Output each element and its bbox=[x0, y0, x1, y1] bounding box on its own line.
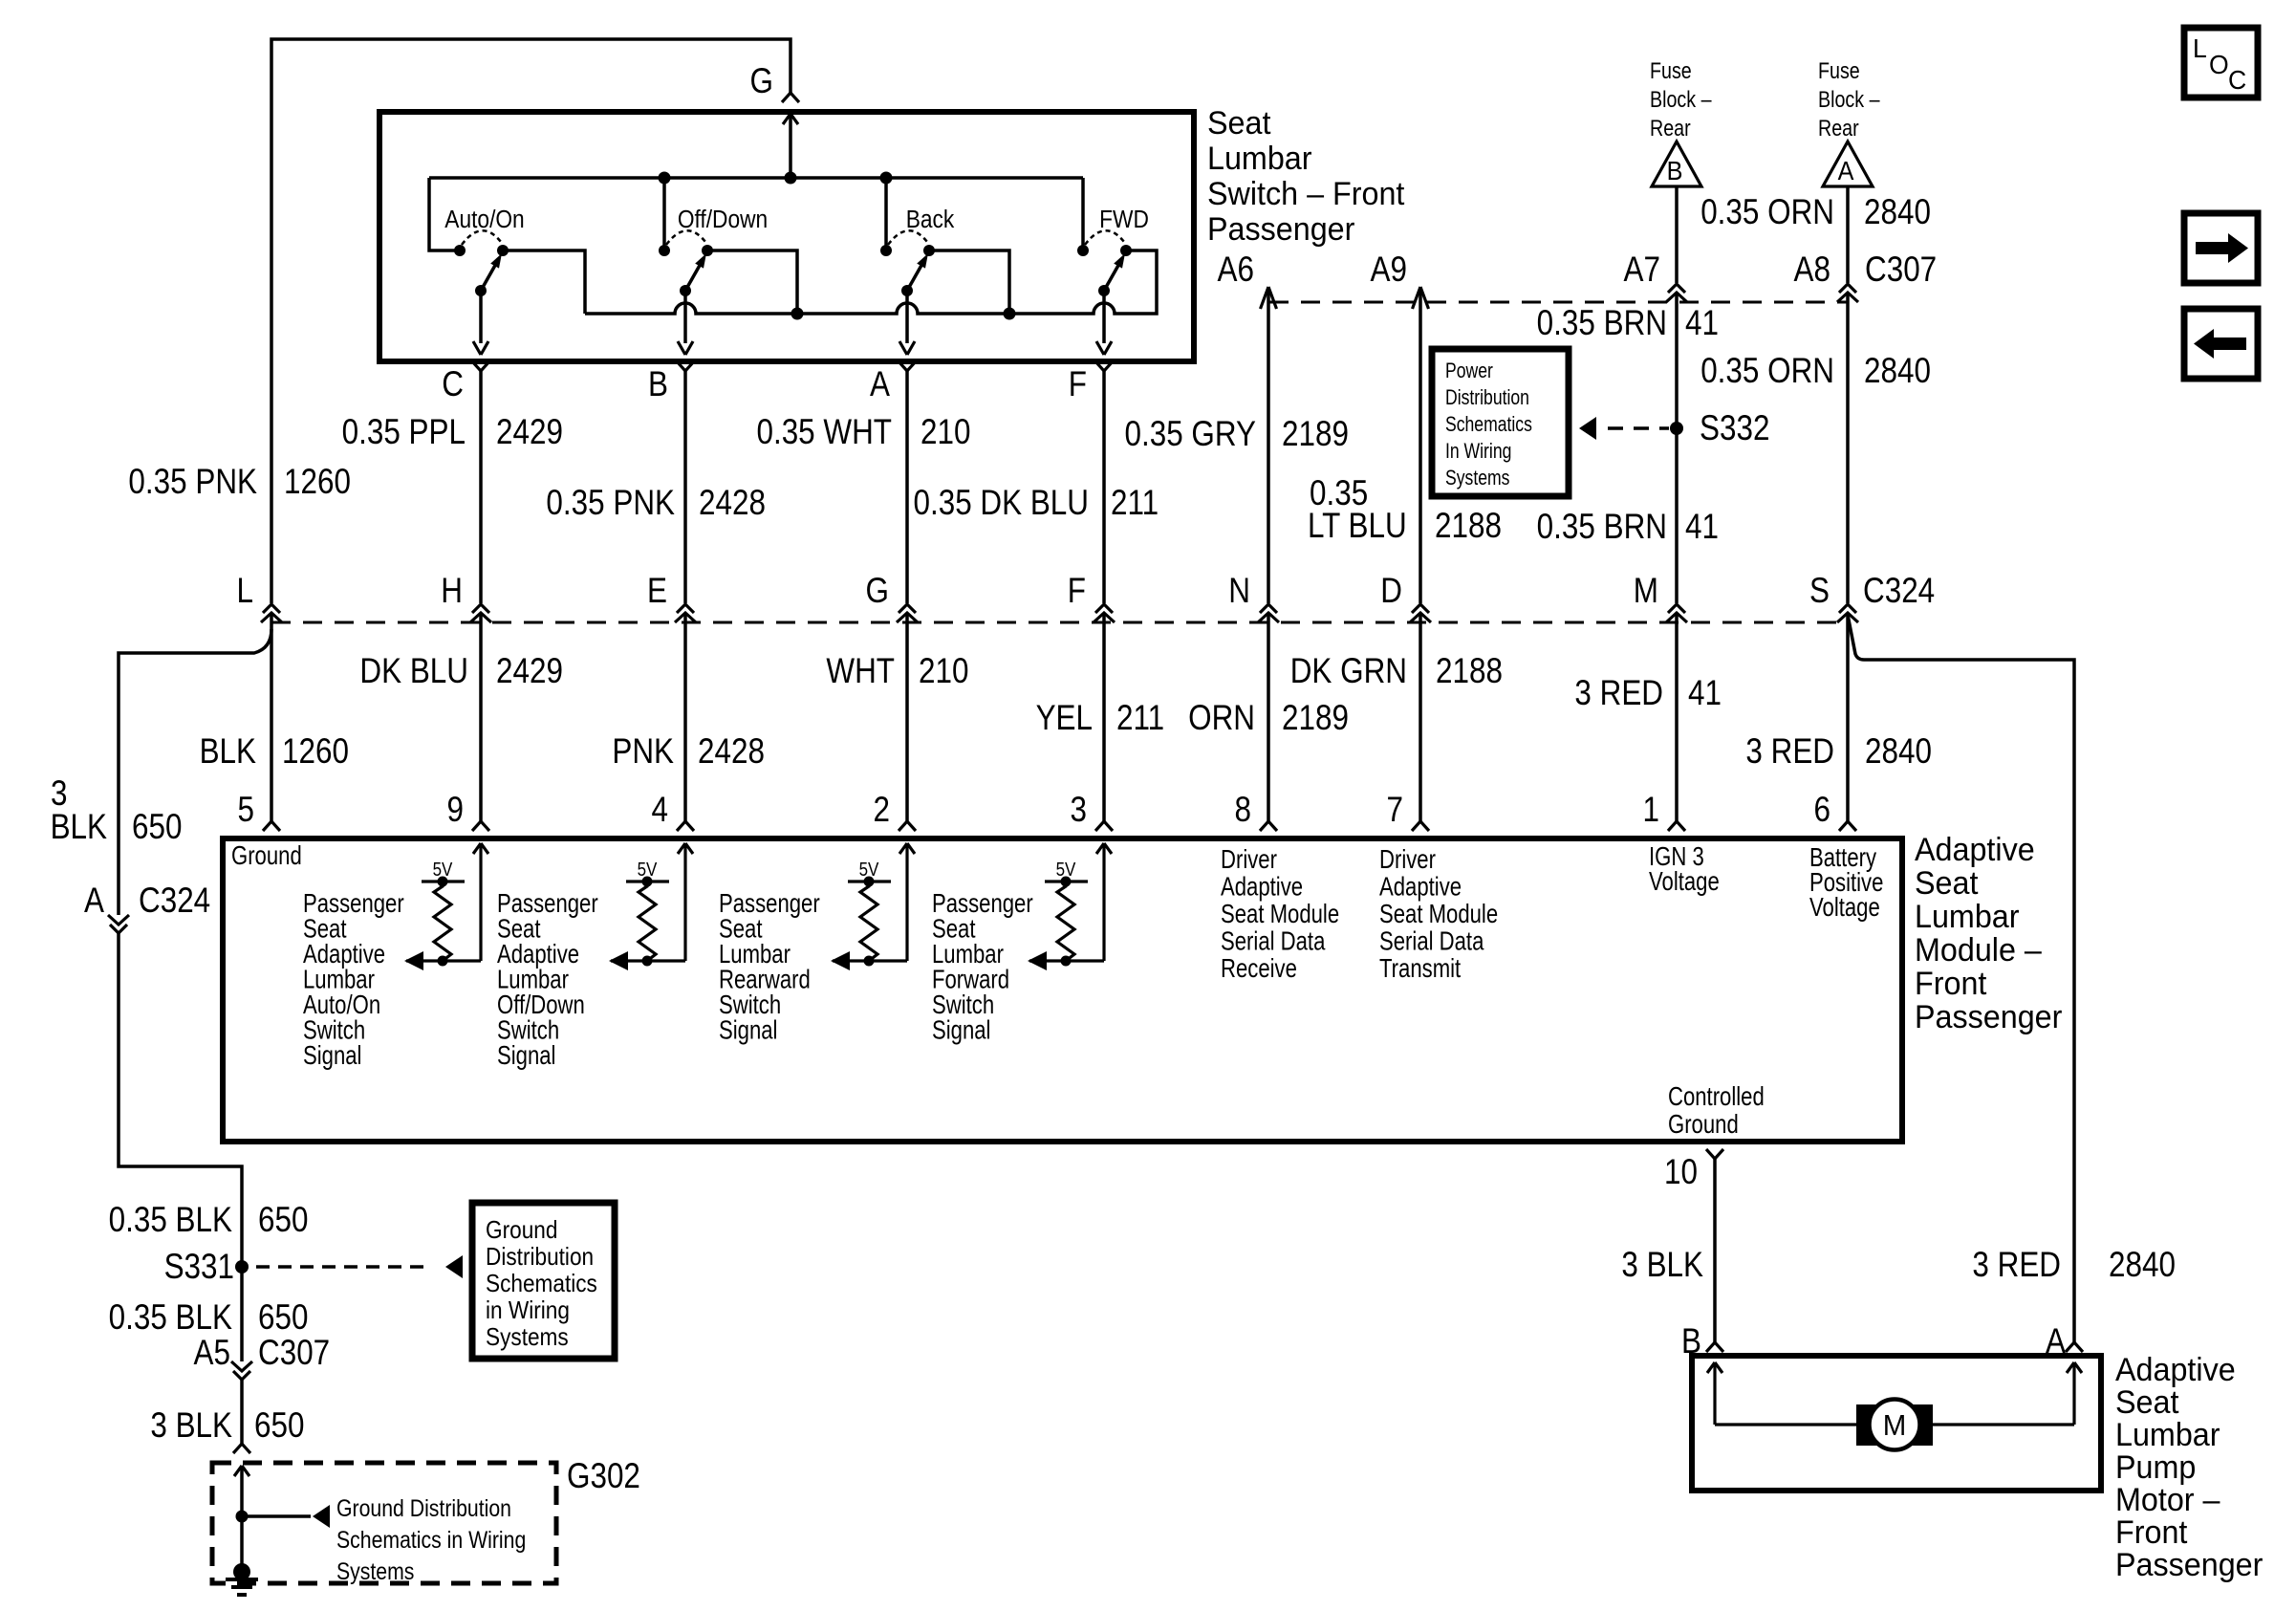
svg-text:0.35 GRY: 0.35 GRY bbox=[1124, 415, 1256, 454]
svg-text:Adaptive: Adaptive bbox=[2115, 1352, 2236, 1388]
5V rail bar pin 3 bbox=[1045, 880, 1088, 882]
navigation box: arrow left bbox=[2184, 309, 2258, 379]
junction dot: Off/Down drop on cross bus bbox=[791, 308, 804, 320]
svg-text:2429: 2429 bbox=[496, 413, 563, 452]
connector chevrons: C324 pin D bbox=[1412, 604, 1429, 613]
svg-text:DK GRN: DK GRN bbox=[1290, 652, 1407, 691]
svg-text:E: E bbox=[647, 572, 667, 611]
wire: fuse A down to C307 bbox=[1846, 186, 1850, 283]
wire: Auto/On right contact to lower cross bus bbox=[503, 250, 585, 314]
svg-text:Passenger: Passenger bbox=[1207, 211, 1354, 248]
wire: B from switch to C324 pin E bbox=[683, 371, 687, 603]
svg-text:BLK: BLK bbox=[200, 732, 257, 772]
ground G302 dashed box bbox=[212, 1463, 556, 1583]
svg-text:M: M bbox=[1634, 572, 1658, 611]
connector C307 (in-line, dashed, top) bbox=[1269, 301, 1848, 304]
svg-text:0.35 BRN: 0.35 BRN bbox=[1537, 508, 1667, 547]
connector chevrons: C324 pin S bbox=[1839, 604, 1856, 613]
svg-text:A9: A9 bbox=[1371, 250, 1407, 290]
svg-text:5V: 5V bbox=[638, 859, 658, 881]
module pin Y: pin 8 bbox=[1260, 821, 1277, 831]
motor M symbol bbox=[1856, 1404, 1933, 1446]
splice S331 bbox=[235, 1260, 249, 1274]
svg-text:A: A bbox=[1838, 156, 1854, 186]
wire: C from switch to C324 pin H bbox=[479, 371, 483, 603]
junction dot: G on bus bbox=[785, 172, 797, 185]
svg-text:2840: 2840 bbox=[1864, 193, 1931, 232]
svg-text:Rear: Rear bbox=[1818, 115, 1859, 141]
svg-text:B: B bbox=[648, 365, 668, 404]
svg-text:Ground: Ground bbox=[231, 841, 302, 871]
fuse block triangle A bbox=[1823, 142, 1873, 186]
svg-text:8: 8 bbox=[1235, 791, 1251, 830]
svg-text:1: 1 bbox=[1643, 791, 1659, 830]
internal arrow: G input into switch bbox=[783, 114, 798, 124]
svg-text:Controlled: Controlled bbox=[1668, 1082, 1765, 1112]
svg-text:F: F bbox=[1069, 365, 1087, 404]
svg-text:2: 2 bbox=[874, 791, 890, 830]
reference arrow at power distribution note bbox=[1579, 417, 1596, 440]
signal arrow (left) pin 3 bbox=[1028, 951, 1047, 970]
svg-text:C: C bbox=[442, 365, 464, 404]
signal arrow (left) pin 4 bbox=[609, 951, 628, 970]
svg-text:4: 4 bbox=[652, 791, 668, 830]
svg-text:C324: C324 bbox=[139, 882, 210, 921]
svg-text:G302: G302 bbox=[567, 1457, 640, 1496]
motor pin Y: A bbox=[2066, 1342, 2083, 1352]
5V rail bar pin 2 bbox=[848, 880, 891, 882]
svg-text:Schematics: Schematics bbox=[486, 1271, 597, 1298]
5V rail bar pin 4 bbox=[626, 880, 669, 882]
svg-text:L: L bbox=[237, 572, 253, 611]
internal arrow: module pin 2 input bbox=[899, 843, 915, 854]
svg-text:5: 5 bbox=[238, 791, 254, 830]
svg-text:0.35 ORN: 0.35 ORN bbox=[1700, 193, 1834, 232]
svg-text:Transmit: Transmit bbox=[1379, 954, 1461, 984]
connector C324 (in-line, dashed) bbox=[271, 621, 1848, 624]
switch element: Back (contacts, blade, pole) bbox=[880, 230, 935, 355]
svg-text:WHT: WHT bbox=[826, 652, 895, 691]
connector Y at G bbox=[782, 93, 799, 102]
svg-text:A5: A5 bbox=[194, 1334, 230, 1373]
svg-text:Switch – Front: Switch – Front bbox=[1207, 176, 1404, 212]
reference line inside G302 bbox=[242, 1514, 311, 1518]
svg-text:YEL: YEL bbox=[1036, 699, 1093, 738]
svg-text:3 BLK: 3 BLK bbox=[1621, 1246, 1703, 1285]
svg-text:0.35 ORN: 0.35 ORN bbox=[1700, 352, 1834, 391]
connector Y: switch pin F bbox=[1095, 361, 1113, 371]
component: Seat Lumbar Switch - Front Passenger (switch box) bbox=[379, 112, 1194, 361]
wire: S331 down to connector C307 pin A5 bbox=[240, 1267, 244, 1361]
wire: to ground symbol bbox=[240, 1516, 244, 1572]
connector chevrons: C307 pin bbox=[1839, 284, 1856, 293]
svg-text:Adaptive: Adaptive bbox=[1379, 872, 1462, 902]
wire: pin 10 to pump motor B bbox=[1713, 1159, 1717, 1342]
internal arrow: module pin 4 input bbox=[678, 843, 693, 854]
connector chevrons: C307 pin A5 (down) bbox=[233, 1371, 250, 1380]
wire: C324 pin E down to module pin 4 bbox=[683, 614, 687, 821]
svg-text:210: 210 bbox=[921, 413, 970, 452]
wire: A8 feed down to C324 pin S bbox=[1846, 294, 1850, 603]
internal arrow: module pin 3 input bbox=[1096, 843, 1112, 854]
wire: bus drop to FWD left contact bbox=[1081, 178, 1085, 250]
svg-text:DK BLU: DK BLU bbox=[359, 652, 468, 691]
internal wire across motor bbox=[1715, 1423, 2074, 1426]
module pin Y: pin 9 bbox=[472, 821, 489, 831]
svg-text:41: 41 bbox=[1688, 674, 1722, 713]
box: Power Distribution Schematics note bbox=[1432, 349, 1569, 496]
wire: bus drop to Back left contact bbox=[884, 178, 888, 250]
wire: C324 M down to module pin 1 (IGN 3) bbox=[1675, 614, 1679, 821]
svg-text:Systems: Systems bbox=[336, 1557, 414, 1584]
connector chevrons: C324 pin M bbox=[1668, 604, 1685, 613]
svg-text:Serial Data: Serial Data bbox=[1221, 926, 1326, 956]
connector chevrons: C324 pin L bbox=[263, 604, 280, 613]
svg-text:0.35 PNK: 0.35 PNK bbox=[128, 463, 257, 502]
svg-text:Signal: Signal bbox=[719, 1015, 777, 1045]
svg-text:9: 9 bbox=[447, 791, 464, 830]
wire: A9 from body harness down to module pin 7 bbox=[1413, 287, 1429, 309]
svg-text:3 RED: 3 RED bbox=[1745, 732, 1834, 772]
svg-text:5V: 5V bbox=[859, 859, 879, 881]
svg-text:C307: C307 bbox=[1865, 250, 1937, 290]
svg-text:1260: 1260 bbox=[282, 732, 349, 772]
svg-text:S331: S331 bbox=[164, 1248, 234, 1287]
svg-text:Seat Module: Seat Module bbox=[1221, 900, 1339, 929]
internal arrow: motor pin B bbox=[1707, 1362, 1722, 1373]
earth ground symbol bbox=[240, 1572, 244, 1579]
svg-text:L: L bbox=[2193, 33, 2207, 63]
svg-text:6: 6 bbox=[1814, 791, 1830, 830]
junction dot 5V pin 4 bbox=[642, 877, 653, 887]
svg-text:0.35 BLK: 0.35 BLK bbox=[109, 1201, 232, 1240]
internal wire to resistor R9 bbox=[406, 959, 481, 962]
component: Adaptive Seat Lumbar Pump Motor - Front Passenger (motor box) bbox=[1692, 1356, 2101, 1491]
wire: A from switch to C324 pin G bbox=[905, 371, 909, 603]
svg-text:650: 650 bbox=[258, 1201, 308, 1240]
svg-text:3: 3 bbox=[1071, 791, 1087, 830]
wire: C324 pin F down to module pin 3 bbox=[1102, 614, 1106, 821]
svg-text:2189: 2189 bbox=[1282, 699, 1349, 738]
svg-text:Voltage: Voltage bbox=[1809, 893, 1880, 923]
svg-text:N: N bbox=[1228, 572, 1250, 611]
junction dot 5V pin 3 bbox=[1061, 877, 1072, 887]
svg-text:C324: C324 bbox=[1863, 572, 1935, 611]
svg-text:Driver: Driver bbox=[1221, 845, 1277, 875]
svg-text:C307: C307 bbox=[258, 1334, 330, 1373]
junction dot resistor bottom pin 4 bbox=[642, 956, 653, 967]
connector Y: switch pin B bbox=[677, 361, 694, 371]
svg-text:Block –: Block – bbox=[1818, 86, 1880, 112]
svg-text:A8: A8 bbox=[1794, 250, 1830, 290]
svg-text:G: G bbox=[866, 572, 889, 611]
svg-text:0.35 WHT: 0.35 WHT bbox=[756, 413, 892, 452]
svg-text:Ground Distribution: Ground Distribution bbox=[336, 1494, 511, 1521]
wire: Back right contact drop bbox=[930, 250, 1009, 314]
fuse block triangle B bbox=[1652, 142, 1701, 186]
svg-text:Front: Front bbox=[2115, 1514, 2187, 1551]
svg-text:Pump: Pump bbox=[2115, 1449, 2196, 1486]
svg-text:2428: 2428 bbox=[699, 484, 766, 523]
svg-text:5V: 5V bbox=[1056, 859, 1076, 881]
svg-text:3 RED: 3 RED bbox=[1972, 1246, 2061, 1285]
connector Y: switch pin A bbox=[899, 361, 916, 371]
svg-text:210: 210 bbox=[919, 652, 968, 691]
svg-text:1260: 1260 bbox=[284, 463, 351, 502]
svg-text:3 BLK: 3 BLK bbox=[150, 1406, 232, 1446]
LOC reference box bbox=[2184, 28, 2258, 98]
svg-text:2188: 2188 bbox=[1436, 652, 1503, 691]
svg-text:D: D bbox=[1380, 572, 1402, 611]
navigation box: arrow right bbox=[2184, 213, 2258, 283]
ground terminal dot bbox=[233, 1563, 250, 1580]
switch element: Off/Down (contacts, blade, pole) bbox=[659, 230, 713, 355]
module pin Y: pin 1 bbox=[1668, 821, 1685, 831]
svg-text:Adaptive: Adaptive bbox=[1915, 832, 2035, 868]
svg-text:C: C bbox=[2228, 64, 2246, 95]
svg-text:2428: 2428 bbox=[698, 732, 765, 772]
switch element: FWD (contacts, blade, pole) bbox=[1077, 230, 1132, 355]
svg-text:B: B bbox=[1667, 156, 1683, 186]
svg-text:In Wiring: In Wiring bbox=[1445, 440, 1511, 463]
wire: fuse B down to C307 bbox=[1675, 186, 1679, 283]
switch element: Auto/On (contacts, blade, pole) bbox=[454, 230, 509, 355]
svg-text:F: F bbox=[1068, 572, 1086, 611]
connector chevrons: C324 pin G bbox=[899, 604, 916, 613]
svg-text:Fuse: Fuse bbox=[1650, 57, 1692, 83]
wire: branch from L wire to ground chain bbox=[119, 629, 271, 915]
svg-text:41: 41 bbox=[1685, 508, 1719, 547]
svg-text:Ground: Ground bbox=[1668, 1110, 1739, 1140]
svg-text:Fuse: Fuse bbox=[1818, 57, 1860, 83]
svg-text:650: 650 bbox=[258, 1298, 308, 1338]
wire: A6 from body harness down to module pin 8 bbox=[1261, 287, 1277, 309]
svg-text:A7: A7 bbox=[1624, 250, 1660, 290]
5V rail bar pin 9 bbox=[422, 880, 465, 882]
svg-text:G: G bbox=[750, 62, 773, 101]
svg-text:H: H bbox=[441, 572, 463, 611]
connector chevrons: C324 pin F bbox=[1095, 604, 1113, 613]
motor pin Y: B bbox=[1706, 1342, 1723, 1352]
svg-text:Back: Back bbox=[906, 207, 955, 234]
reference arrow at ground distribution note bbox=[445, 1255, 463, 1278]
junction dot: Off/Down feed on bus bbox=[659, 172, 671, 185]
junction dot resistor bottom pin 9 bbox=[438, 956, 448, 967]
svg-text:211: 211 bbox=[1116, 699, 1164, 738]
wire: C307 A5 down to ground G302 bbox=[240, 1380, 244, 1444]
svg-text:3 RED: 3 RED bbox=[1574, 674, 1663, 713]
box: Ground Distribution Schematics note (solid) bbox=[472, 1203, 615, 1359]
svg-text:Voltage: Voltage bbox=[1649, 867, 1720, 897]
svg-text:Systems: Systems bbox=[486, 1324, 569, 1352]
svg-text:Lumbar: Lumbar bbox=[1915, 899, 2020, 935]
svg-text:2189: 2189 bbox=[1282, 415, 1349, 454]
component: Adaptive Seat Lumbar Module - Front Passenger (module box) bbox=[223, 838, 1902, 1142]
wire: lower cross bus with hops over switch poles bbox=[585, 250, 1157, 314]
svg-text:2840: 2840 bbox=[1865, 732, 1932, 772]
internal arrow into G302 bbox=[234, 1466, 249, 1476]
internal wire to resistor R2 bbox=[833, 959, 907, 962]
svg-text:Signal: Signal bbox=[932, 1015, 990, 1045]
svg-text:Ground: Ground bbox=[486, 1217, 557, 1245]
svg-text:2188: 2188 bbox=[1435, 507, 1502, 546]
svg-text:Adaptive: Adaptive bbox=[1221, 872, 1303, 902]
module pin Y: pin 7 bbox=[1412, 821, 1429, 831]
signal arrow (left) pin 9 bbox=[404, 951, 423, 970]
module pin Y: pin 6 bbox=[1839, 821, 1856, 831]
svg-text:Seat: Seat bbox=[2115, 1384, 2178, 1421]
wire: ground chain below C324 A bbox=[119, 933, 242, 1267]
splice S332 bbox=[1670, 422, 1683, 435]
resistor R3 (pull-up to 5V) bbox=[1057, 882, 1074, 961]
svg-text:S332: S332 bbox=[1700, 409, 1769, 448]
svg-text:PNK: PNK bbox=[612, 732, 674, 772]
svg-text:Motor –: Motor – bbox=[2115, 1482, 2220, 1518]
internal arrow: motor pin A bbox=[2067, 1362, 2082, 1373]
resistor R9 (pull-up to 5V) bbox=[434, 882, 451, 961]
module pin 10 Y bbox=[1706, 1149, 1723, 1159]
svg-text:Schematics: Schematics bbox=[1445, 413, 1532, 436]
junction dot 5V pin 9 bbox=[438, 877, 448, 887]
junction dot: Back feed on bus bbox=[880, 172, 893, 185]
svg-text:2429: 2429 bbox=[496, 652, 563, 691]
svg-text:Block –: Block – bbox=[1650, 86, 1712, 112]
wire: C324 pin G down to module pin 2 bbox=[905, 614, 909, 821]
resistor R2 (pull-up to 5V) bbox=[860, 882, 877, 961]
svg-text:BLK: BLK bbox=[51, 808, 108, 847]
connector Y: switch pin C bbox=[472, 361, 489, 371]
svg-text:M: M bbox=[1883, 1409, 1907, 1442]
wire: bus drop to Auto/On left contact bbox=[429, 178, 460, 250]
svg-text:Driver: Driver bbox=[1379, 845, 1436, 875]
svg-text:Lumbar: Lumbar bbox=[1207, 141, 1312, 177]
junction dot resistor bottom pin 3 bbox=[1061, 956, 1072, 967]
svg-text:10: 10 bbox=[1664, 1153, 1698, 1192]
wire: C324 pin L down to module pin 5 bbox=[270, 614, 273, 821]
svg-text:O: O bbox=[2209, 49, 2229, 79]
svg-text:LT BLU: LT BLU bbox=[1308, 507, 1407, 546]
svg-text:Rear: Rear bbox=[1650, 115, 1691, 141]
svg-text:Schematics in Wiring: Schematics in Wiring bbox=[336, 1526, 526, 1553]
module pin Y: pin 2 bbox=[899, 821, 916, 831]
svg-text:Module –: Module – bbox=[1915, 932, 2042, 969]
wire: C324 S down to module pin 6 (battery) bbox=[1846, 614, 1850, 821]
connector Y into G302 bbox=[233, 1444, 250, 1453]
svg-text:A6: A6 bbox=[1218, 250, 1254, 290]
module pin Y: pin 3 bbox=[1095, 821, 1113, 831]
svg-text:211: 211 bbox=[1111, 484, 1159, 523]
internal wire to resistor R4 bbox=[611, 959, 685, 962]
svg-text:2840: 2840 bbox=[2109, 1246, 2176, 1285]
wire: internal supply bus of switch bbox=[429, 176, 1083, 180]
svg-text:Seat: Seat bbox=[1915, 865, 1978, 902]
svg-text:S: S bbox=[1809, 572, 1830, 611]
junction dot inside G302 bbox=[236, 1511, 249, 1523]
svg-text:A: A bbox=[84, 882, 104, 921]
connector chevrons: C324 pin A (down) bbox=[110, 925, 127, 933]
svg-text:41: 41 bbox=[1685, 304, 1719, 343]
svg-text:Lumbar: Lumbar bbox=[2115, 1417, 2220, 1453]
reference dashes from S332 bbox=[1608, 426, 1669, 429]
svg-text:0.35 PNK: 0.35 PNK bbox=[546, 484, 675, 523]
signal arrow (left) pin 2 bbox=[831, 951, 850, 970]
svg-text:Seat: Seat bbox=[1207, 105, 1270, 142]
svg-text:Power: Power bbox=[1445, 359, 1493, 382]
svg-text:Serial Data: Serial Data bbox=[1379, 926, 1484, 956]
svg-text:Seat Module: Seat Module bbox=[1379, 900, 1498, 929]
module pin Y: pin 5 bbox=[263, 821, 280, 831]
svg-text:0.35 BRN: 0.35 BRN bbox=[1537, 304, 1667, 343]
svg-text:5V: 5V bbox=[433, 859, 453, 881]
svg-text:Distribution: Distribution bbox=[486, 1244, 594, 1272]
svg-text:2840: 2840 bbox=[1864, 352, 1931, 391]
svg-text:Signal: Signal bbox=[497, 1041, 555, 1071]
connector chevrons: C307 pin bbox=[1668, 284, 1685, 293]
svg-text:FWD: FWD bbox=[1099, 207, 1149, 234]
reference dashes from S331 to ground distribution note bbox=[256, 1265, 432, 1268]
connector chevrons: C324 pin E bbox=[677, 604, 694, 613]
svg-text:0.35 PPL: 0.35 PPL bbox=[342, 413, 466, 452]
wire: A7 feed down to C324 pin M bbox=[1675, 294, 1679, 603]
svg-text:650: 650 bbox=[254, 1406, 304, 1446]
connector chevrons: C324 pin H bbox=[472, 604, 489, 613]
module pin Y: pin 4 bbox=[677, 821, 694, 831]
svg-text:Auto/On: Auto/On bbox=[444, 207, 524, 234]
svg-text:Passenger: Passenger bbox=[2115, 1547, 2263, 1583]
svg-text:Receive: Receive bbox=[1221, 954, 1297, 984]
svg-text:Passenger: Passenger bbox=[1915, 999, 2062, 1035]
internal arrow: module pin 9 input bbox=[473, 843, 488, 854]
resistor R4 (pull-up to 5V) bbox=[639, 882, 656, 961]
junction dot: Back drop on cross bus bbox=[1004, 308, 1016, 320]
junction dot resistor bottom pin 2 bbox=[864, 956, 875, 967]
wire: bus drop to Off/Down left contact bbox=[662, 178, 666, 250]
wire: switch pin G feed loop from connector C324 pin L bbox=[271, 39, 791, 603]
internal wire to resistor R3 bbox=[1029, 959, 1104, 962]
reference arrow inside G302 bbox=[313, 1505, 330, 1528]
svg-text:Signal: Signal bbox=[303, 1041, 361, 1071]
junction dot 5V pin 2 bbox=[864, 877, 875, 887]
svg-text:Systems: Systems bbox=[1445, 467, 1509, 490]
wire: Off/Down right contact drop bbox=[707, 250, 797, 314]
wire: C324 pin H down to module pin 9 bbox=[479, 614, 483, 821]
svg-text:ORN: ORN bbox=[1188, 699, 1255, 738]
connector chevrons: C324 pin N bbox=[1260, 604, 1277, 613]
svg-text:in Wiring: in Wiring bbox=[486, 1297, 570, 1325]
svg-text:0.35 DK BLU: 0.35 DK BLU bbox=[913, 484, 1089, 523]
svg-text:650: 650 bbox=[132, 808, 182, 847]
svg-text:7: 7 bbox=[1387, 791, 1403, 830]
svg-text:0.35 BLK: 0.35 BLK bbox=[109, 1298, 232, 1338]
wire: branch from S to pump motor feed bbox=[1848, 615, 2074, 1342]
wire: F from switch to C324 pin F bbox=[1102, 371, 1106, 603]
svg-text:Front: Front bbox=[1915, 966, 1986, 1002]
svg-text:A: A bbox=[870, 365, 890, 404]
svg-text:Distribution: Distribution bbox=[1445, 386, 1529, 409]
svg-text:Off/Down: Off/Down bbox=[678, 207, 768, 234]
